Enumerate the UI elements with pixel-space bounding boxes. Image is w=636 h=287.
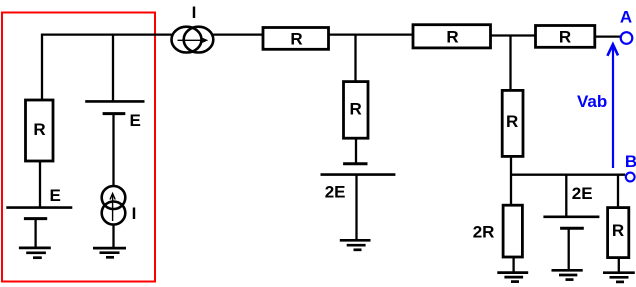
wire: junction down to resistor RV2 xyxy=(509,36,511,91)
resistor R3 (horizontal, label R) xyxy=(536,26,595,48)
ground (2E right branch) xyxy=(552,270,583,279)
svg-text:R: R xyxy=(612,221,624,240)
svg-text:R: R xyxy=(290,30,302,49)
resistor R6 (right bottom, vertical, label R) xyxy=(608,208,629,258)
voltage arrow Vab (blue, pointing up to A) xyxy=(607,44,618,168)
resistor RV2 (right, vertical, label R) xyxy=(502,90,523,156)
svg-text:2E: 2E xyxy=(325,183,346,202)
svg-text:E: E xyxy=(50,186,61,205)
wire: R6 to ground xyxy=(618,258,620,273)
current source I1 (top, two overlapping circles) xyxy=(172,27,214,53)
node A terminal (blue circle) xyxy=(621,32,633,44)
wire: R4 bottom to battery E1 xyxy=(39,161,41,208)
wire: RV2 down through junction to resistor 2R xyxy=(510,156,512,205)
wire: node B branch down to resistor R6 xyxy=(617,175,619,208)
resistor R1 (horizontal, label R) xyxy=(263,28,329,50)
resistor RV1 (middle, vertical, label R) xyxy=(344,82,369,139)
resistor R2 (horizontal, label R) xyxy=(413,25,491,48)
svg-text:A: A xyxy=(620,8,632,27)
svg-text:R: R xyxy=(506,112,518,131)
wire: 2E branch down from bottom wire xyxy=(565,175,567,217)
wire: battery B2 to ground xyxy=(355,175,357,241)
ground (2R branch) xyxy=(497,273,528,282)
battery B2 long plate (bottom) xyxy=(321,173,396,176)
wire: RV1 to battery 2E (middle) xyxy=(355,138,357,164)
battery B2 short plate (top) xyxy=(343,162,367,165)
wire: battery B3 to ground xyxy=(568,228,570,270)
ground (left branch) xyxy=(19,248,51,258)
wire: R1 to R2, with junction to RV1 xyxy=(329,33,414,35)
battery E1 short plate xyxy=(24,217,47,220)
wire: R3 to node A xyxy=(595,35,620,37)
wire: current source I2 to ground xyxy=(112,225,114,249)
battery E1 long plate xyxy=(6,206,72,209)
wire: bottom horizontal to node B xyxy=(511,174,625,176)
svg-text:I: I xyxy=(192,3,197,22)
battery B3 long plate (top) xyxy=(543,216,599,219)
wire: battery E1 to ground xyxy=(34,219,36,248)
wire: top-left corner from resistor R4 up and right to current source I1 xyxy=(42,35,172,100)
svg-text:B: B xyxy=(625,152,636,171)
ground (node B branch) xyxy=(603,273,635,282)
node B terminal (blue circle) xyxy=(626,173,635,182)
svg-text:Vab: Vab xyxy=(577,92,607,111)
svg-text:R: R xyxy=(446,28,458,47)
highlight box (red) xyxy=(2,13,155,282)
battery B3 short plate (bottom) xyxy=(560,227,584,230)
svg-text:2E: 2E xyxy=(572,184,593,203)
ground (current source branch) xyxy=(93,248,126,257)
battery E2 long plate xyxy=(85,100,144,103)
svg-text:R: R xyxy=(559,28,571,47)
wire: top node down to battery E2 xyxy=(112,35,114,102)
wire: R2 to R3, with junction to RV2 xyxy=(491,34,536,36)
svg-text:E: E xyxy=(130,111,141,130)
wire: junction down to resistor RV1 xyxy=(354,35,356,82)
arrow inside current source I1 (right) xyxy=(178,38,207,43)
wire: current source I1 to resistor R1 xyxy=(213,33,263,35)
wire: 2R to ground xyxy=(512,257,514,273)
resistor R4 (left, vertical, label R) xyxy=(26,100,54,161)
ground (middle branch) xyxy=(340,240,371,250)
svg-text:R: R xyxy=(350,99,362,118)
resistor R5 (2R, vertical) xyxy=(503,205,522,257)
wire: battery E2 to current source I2 xyxy=(112,114,114,187)
current source I2 (vertical, two overlapping circles) xyxy=(102,186,126,225)
svg-text:R: R xyxy=(33,120,45,139)
svg-text:I: I xyxy=(132,204,137,223)
arrow inside current source I2 (up) xyxy=(110,194,115,222)
svg-text:2R: 2R xyxy=(473,222,495,241)
battery E2 short plate xyxy=(103,112,126,115)
